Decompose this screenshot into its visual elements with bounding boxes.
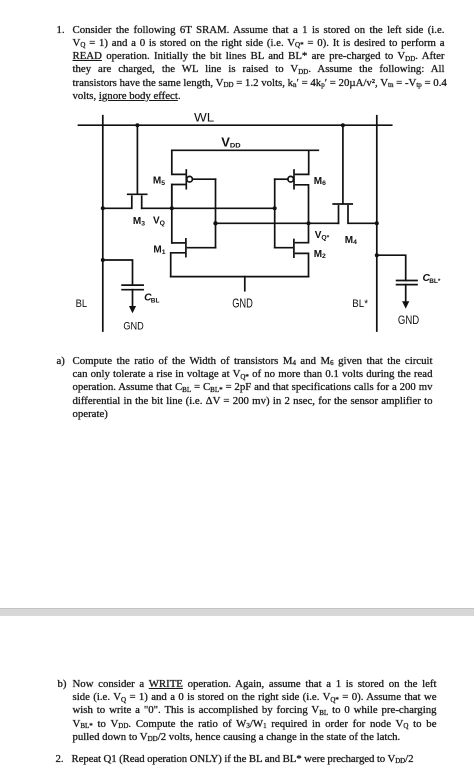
junction dot gate column/VQ* wire	[213, 221, 217, 225]
transistor M1 (left pull-down NMOS)	[171, 239, 216, 277]
junction dot WL/M3 gate	[135, 123, 139, 127]
transistor M2 label	[314, 249, 326, 260]
wire M4 gate column from WL	[342, 125, 344, 203]
wire VQ node horizontal	[142, 207, 275, 209]
svg-text:VQ: VQ	[153, 216, 165, 228]
junction dot BL/cap branch	[101, 258, 105, 262]
node VDD label	[221, 135, 241, 150]
wire GND rail of latch	[171, 276, 309, 278]
svg-text:BL*: BL*	[352, 298, 368, 310]
svg-text:VDD: VDD	[221, 135, 241, 150]
wire VQ column M5 drain to M1 drain	[171, 185, 173, 243]
problem 1 number	[57, 24, 65, 36]
capacitor CBL label	[144, 293, 159, 305]
problem 2 number	[56, 753, 64, 765]
junction dot BL*/cap branch	[375, 253, 379, 257]
transistor M5 (left PMOS)	[172, 150, 216, 208]
part b) label	[58, 678, 67, 690]
part a) paragraph	[73, 355, 433, 421]
svg-text:M6: M6	[314, 176, 326, 187]
junction dot VQ wire end	[273, 206, 277, 210]
wire BL* bit line (right vertical)	[376, 116, 378, 331]
ground arrow below CBL*	[402, 285, 409, 309]
svg-text:BL: BL	[151, 297, 160, 304]
node VQ label	[153, 216, 165, 228]
transistor M2 (right pull-down NMOS)	[275, 223, 309, 276]
junction dot VQ column	[170, 206, 174, 210]
problem 2 paragraph	[72, 753, 444, 766]
part a) label	[57, 355, 65, 367]
ground GND label (below CBL*)	[398, 314, 419, 327]
transistor M4 (right access NMOS)	[333, 204, 377, 223]
node BL* label	[352, 298, 368, 310]
junction dot WL/M4 gate	[341, 123, 345, 127]
wire cross-couple gate column (M5/M1 gates to VQ*)	[215, 179, 217, 248]
junction dot VQ* column	[307, 221, 311, 225]
grey scan band	[0, 608, 474, 616]
svg-text:M5: M5	[153, 176, 165, 187]
junction dot BL/M3	[101, 206, 105, 210]
transistor M3 (left access NMOS)	[103, 194, 147, 208]
ground GND label (below CBL)	[123, 320, 143, 332]
wire GND stub	[244, 277, 246, 291]
transistor M6 (right PMOS)	[275, 150, 309, 223]
wire WL horizontal rail	[79, 124, 392, 126]
transistor M1 label	[153, 245, 165, 256]
svg-text:GND: GND	[232, 296, 253, 311]
capacitor CBL*	[397, 281, 417, 285]
wire BL bit line (left vertical)	[102, 116, 104, 331]
junction dot BL*/VQ* wire	[375, 221, 379, 225]
wire BL* capacitor branch	[377, 255, 406, 280]
svg-text:M1: M1	[153, 245, 165, 256]
problem 1 paragraph	[73, 24, 445, 104]
svg-text:GND: GND	[123, 320, 143, 332]
wire VQ* node horizontal	[216, 222, 339, 224]
capacitor CBL* label	[423, 273, 441, 285]
transistor M6 label	[314, 176, 326, 187]
wire BL capacitor branch	[103, 260, 133, 285]
transistor M4 label	[345, 235, 357, 246]
wire cross-couple gate column (M6/M2 gates to VQ)	[274, 179, 276, 248]
ground arrow below CBL	[129, 290, 136, 314]
svg-text:M4: M4	[345, 235, 357, 246]
svg-text:VQ*: VQ*	[315, 230, 330, 242]
transistor M3 label	[133, 216, 145, 227]
capacitor CBL	[122, 285, 143, 290]
part b) paragraph	[73, 678, 437, 744]
svg-text:BL*: BL*	[429, 278, 441, 285]
svg-text:M3: M3	[133, 216, 145, 227]
wire M3 gate column from WL	[136, 125, 138, 193]
svg-text:M2: M2	[314, 249, 326, 260]
transistor M5 label	[153, 176, 165, 187]
svg-text:GND: GND	[398, 314, 419, 327]
svg-text:BL: BL	[76, 298, 88, 310]
wire VDD rail	[172, 149, 318, 151]
node WL label	[194, 110, 214, 124]
svg-text:WL: WL	[194, 110, 214, 124]
node BL label	[76, 298, 88, 310]
node VQ* label	[315, 230, 330, 242]
ground GND label (latch)	[232, 296, 253, 311]
